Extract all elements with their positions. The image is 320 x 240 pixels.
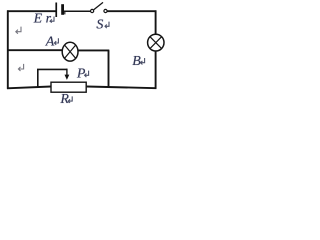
wire right vertical upper <box>155 10 157 34</box>
battery E long plate <box>55 3 57 18</box>
svg-text:R: R <box>59 92 69 106</box>
rheostat slider wire left vertical <box>37 69 39 88</box>
wire top between switch and corner <box>107 10 156 12</box>
floating return mark middle left <box>18 64 23 71</box>
return mark after B <box>141 58 145 65</box>
svg-text:B: B <box>132 54 141 69</box>
lamp A circle <box>62 42 78 61</box>
return mark after R <box>68 96 72 103</box>
lamp A cross <box>65 45 76 58</box>
lamp B cross <box>150 37 161 49</box>
wire lamp A branch vertical down <box>108 50 110 87</box>
wire bottom horizontal left segment <box>7 87 51 89</box>
return mark after P <box>85 71 89 78</box>
rheostat slider arrow stem <box>66 69 68 76</box>
floating return mark upper left <box>16 27 21 34</box>
battery E thick short plate <box>61 4 64 15</box>
svg-text:E r: E r <box>33 12 52 27</box>
wire bottom horizontal right segment <box>87 87 157 89</box>
wire lamp A branch right <box>78 49 110 51</box>
return mark after Er <box>50 17 54 23</box>
return mark after S <box>105 22 109 29</box>
wire lamp A branch left <box>8 49 63 51</box>
wire top-left horizontal <box>7 10 56 12</box>
svg-text:S: S <box>96 17 103 32</box>
battery terminal tick <box>64 11 65 14</box>
rheostat slider arrowhead P <box>65 75 70 80</box>
lamp B circle <box>148 34 164 51</box>
wire left vertical <box>7 10 9 89</box>
return mark after A <box>54 38 58 45</box>
rheostat slider wire horizontal <box>37 68 67 70</box>
switch S left contact circle <box>91 9 94 12</box>
svg-text:A: A <box>45 35 55 50</box>
rheostat R body rectangle <box>51 82 86 92</box>
wire right vertical lower <box>155 51 157 89</box>
wire battery to switch <box>64 10 91 12</box>
svg-text:P: P <box>76 67 86 82</box>
switch S right contact circle <box>104 9 107 12</box>
switch S lever <box>94 2 103 9</box>
